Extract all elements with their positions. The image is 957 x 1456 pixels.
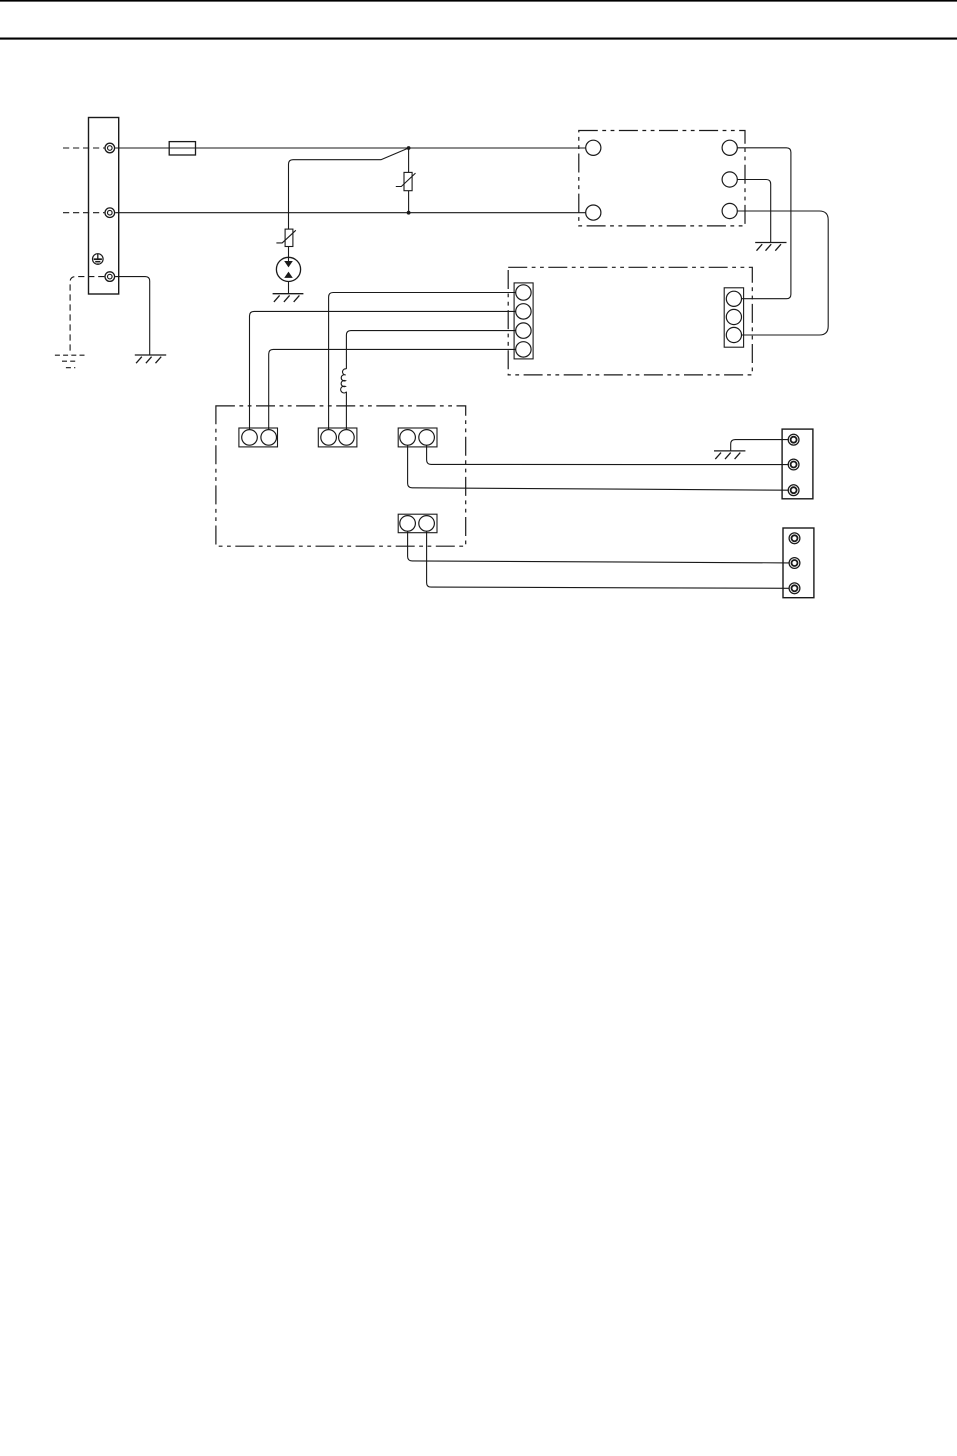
CN-R pin1	[726, 291, 741, 306]
wire CN-L pin1 to CN2	[329, 293, 516, 430]
wire L TB1-1 to power unit	[115, 147, 586, 149]
wire CN-L pin2 to CN1	[250, 311, 516, 429]
terminal block TB1	[89, 118, 119, 295]
wire inductor to CN2	[345, 392, 347, 430]
header rule top	[0, 0, 957, 2]
wire CN4 pin2 to TB3-3	[427, 531, 789, 588]
power unit earth wire	[737, 180, 770, 243]
wire B power unit to CN-R pin3	[737, 211, 828, 335]
varistor ZNR1	[396, 148, 416, 213]
power unit pin right-bottom	[722, 203, 737, 218]
indoor unit box (phantom outline)	[216, 406, 466, 546]
wire TB1-3 to earth ground G1	[115, 277, 150, 355]
wire surge arrester to ground G2	[288, 282, 290, 294]
power unit pin right-middle	[722, 172, 737, 187]
wire TB2-1 to ground G4	[731, 440, 789, 451]
wire CN4 pin1 to TB3-2	[408, 531, 789, 563]
junction dot B	[407, 211, 411, 215]
CN-R pin2	[726, 309, 741, 324]
connector CN2 housing	[318, 428, 357, 447]
terminal TB3-1	[789, 533, 800, 544]
power unit pin left-top	[586, 140, 601, 155]
terminal TB2-3	[788, 485, 799, 496]
terminal TB3-3	[789, 583, 800, 594]
varistor ZNR2	[276, 229, 295, 246]
terminal block TB3	[783, 528, 814, 598]
terminal block TB2	[782, 429, 813, 499]
CN-R pin3	[726, 327, 741, 342]
surge arrester E1	[276, 257, 300, 281]
dashed incoming line N	[63, 212, 104, 214]
wire CN-L pin3 to inductor	[346, 331, 515, 369]
controller PCB box (phantom outline)	[508, 267, 752, 375]
CN-L pin3	[516, 323, 531, 338]
CN-L pin1	[516, 285, 531, 300]
terminal TB1-2	[105, 208, 115, 218]
wire CN3 pin2 to TB2-2	[427, 445, 789, 464]
wire CN-L pin4 to CN1	[269, 349, 516, 429]
protective earth symbol on TB1	[93, 254, 104, 265]
branch wire to surge arrester	[289, 148, 409, 229]
terminal TB2-2	[788, 459, 799, 470]
connector CN3 housing	[398, 428, 437, 447]
CN-L pin2	[516, 304, 531, 319]
header rule bottom	[0, 38, 957, 40]
connector CN4 housing	[398, 514, 437, 533]
terminal TB2-1	[788, 434, 799, 445]
CN4 pin1	[400, 516, 416, 532]
CN1 pin2	[261, 430, 277, 446]
wire ZNR2 to surge arrester	[288, 247, 290, 258]
wire A power unit to CN-R pin1	[737, 148, 791, 299]
CN1 pin1	[242, 430, 258, 446]
power unit pin right-top	[722, 140, 737, 155]
connector CN-L housing	[514, 283, 533, 359]
dashed earth lead from TB1-3	[70, 277, 104, 355]
connector CN-R housing	[724, 288, 743, 347]
junction dot A	[407, 146, 411, 150]
power unit box (phantom outline)	[579, 131, 745, 226]
earth ground G1	[135, 355, 166, 363]
CN2 pin1	[321, 430, 337, 446]
CN2 pin2	[339, 430, 355, 446]
CN-L pin4	[516, 342, 531, 357]
terminal TB1-1	[105, 143, 115, 153]
fuse F1	[169, 142, 195, 155]
dashed incoming line L	[63, 147, 104, 149]
inductor L1	[341, 369, 347, 393]
power unit pin left-bottom	[586, 205, 601, 220]
wire CN3 pin1 to TB2-3	[408, 445, 789, 490]
CN3 pin1	[400, 430, 416, 446]
earth ground G2	[273, 294, 304, 302]
earth ground G3	[755, 243, 786, 251]
earth ground G4	[714, 451, 745, 459]
CN4 pin2	[419, 516, 435, 532]
terminal TB3-2	[789, 558, 800, 569]
wire N TB1-2 to power unit	[115, 212, 586, 214]
terminal TB1-3	[105, 272, 115, 282]
chassis ground (dashed)	[55, 355, 86, 368]
CN3 pin2	[419, 430, 435, 446]
connector CN1 housing	[239, 428, 278, 447]
